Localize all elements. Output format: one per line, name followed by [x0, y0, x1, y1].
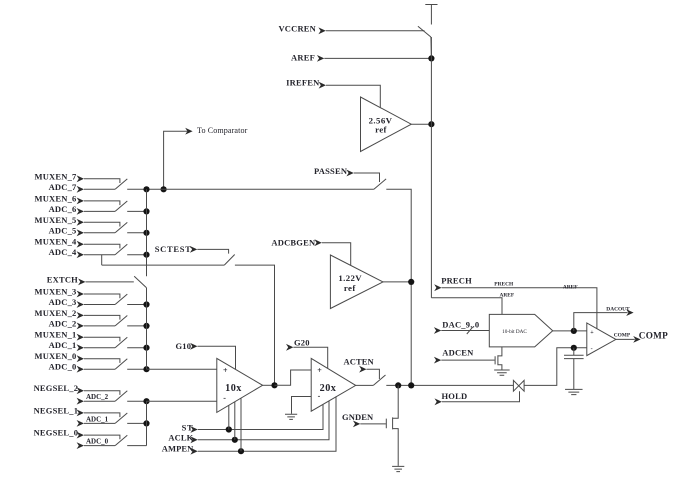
svg-text:AREF: AREF [291, 52, 315, 62]
svg-text:ADC_2: ADC_2 [86, 393, 109, 401]
svg-text:G20: G20 [294, 337, 310, 347]
input arrow negative ADC_1 [77, 420, 84, 427]
svg-text:+: + [590, 330, 594, 336]
svg-text:NEGSEL_1: NEGSEL_1 [34, 405, 79, 415]
wire SCTEST switch to 10x output node [235, 265, 275, 385]
wire MUXEN_5 control [84, 222, 120, 226]
svg-text:SCTEST: SCTEST [155, 244, 192, 254]
wire switch S7 to mux bus [127, 188, 146, 190]
svg-text:ADC_1: ADC_1 [86, 415, 109, 423]
input arrow MUXEN_4 [77, 241, 84, 248]
junction ST to 10x [226, 426, 232, 432]
wire ACLK riser to 10x [234, 402, 236, 440]
svg-text:AREF: AREF [500, 293, 515, 299]
svg-text:ADC_4: ADC_4 [49, 247, 77, 257]
wire ST to amplifiers [198, 404, 323, 429]
wire IREFEN to 2.56V ref enable [326, 85, 380, 108]
wire ACTEN control [367, 369, 380, 379]
svg-text:ACTEN: ACTEN [344, 356, 375, 366]
svg-text:NEGSEL_2: NEGSEL_2 [34, 383, 79, 393]
junction 2.56V output on reference bus [428, 121, 434, 127]
ground at ADCEN source [494, 370, 510, 375]
output arrow DACOUT [626, 309, 633, 316]
svg-text:MUXEN_1: MUXEN_1 [34, 330, 76, 340]
wire PRECH to comparator [442, 288, 597, 329]
wire VCCREN to switch [326, 30, 425, 32]
wire ADCBGEN to 1.22V ref enable [322, 243, 351, 266]
input arrow ADC_0 [77, 366, 84, 373]
wire SCTEST control [197, 249, 228, 253]
bus slash on DAC_9..0 [467, 327, 473, 334]
wire comparator output [616, 338, 635, 340]
wire EXTCH control [86, 281, 134, 283]
arrow To Comparator [185, 128, 192, 135]
switch S2 blade (open) [115, 316, 127, 326]
switch S0 blade (open) [115, 359, 127, 369]
wire sample line to hold gate [386, 384, 513, 386]
input arrow DAC_9..0 [434, 327, 441, 334]
svg-text:ADC_0: ADC_0 [49, 362, 77, 372]
ground at 20x inverting input [285, 414, 297, 419]
junction sample line / GNDEN pulldown [395, 382, 401, 388]
wire switch S5 to mux bus [127, 232, 146, 234]
junction ADC_3 on mux bus [143, 301, 149, 307]
wire switch S2 to mux bus [127, 325, 146, 327]
wire mux bus upper segment [146, 189, 148, 276]
svg-text:MUXEN_3: MUXEN_3 [34, 287, 76, 297]
wire 2.56V ref output to reference bus [411, 123, 431, 125]
wire MUXEN_4 control [84, 244, 120, 248]
input arrow ADC_5 [77, 229, 84, 236]
svg-text:ADC_3: ADC_3 [49, 297, 77, 307]
wire ADC_7 input [84, 188, 115, 190]
input arrow ACTEN [359, 366, 366, 373]
svg-text:10-bit DAC: 10-bit DAC [502, 329, 527, 335]
wire DAC output to comparator non-inverting input [553, 330, 587, 332]
wire ADC_3 input [84, 304, 115, 306]
input arrow ADC_3 [77, 301, 84, 308]
input arrow AREF [317, 55, 324, 62]
input arrow AMPEN [190, 448, 197, 455]
svg-text:ADC_0: ADC_0 [86, 438, 109, 446]
wire negative ADC_1 input [84, 422, 115, 424]
svg-text:VCCREN: VCCREN [278, 24, 316, 34]
input arrow GNDEN [353, 421, 360, 428]
wire AMPEN to amplifiers [198, 396, 336, 451]
input arrow MUXEN_0 [77, 355, 84, 362]
wire AREF [324, 57, 431, 59]
svg-text:ref: ref [344, 283, 356, 293]
svg-text:ADC_7: ADC_7 [49, 182, 77, 192]
svg-text:IREFEN: IREFEN [286, 78, 320, 88]
svg-text:ADC_5: ADC_5 [49, 225, 77, 235]
transistor M1 GNDEN pulldown NMOS [386, 385, 398, 466]
svg-text:PRECH: PRECH [494, 281, 514, 287]
wire switch S1 to mux bus [127, 347, 146, 349]
transistor M2 ADCEN enable NMOS [495, 347, 502, 370]
svg-text:PASSEN: PASSEN [314, 166, 348, 176]
wire negsel bus vertical [146, 401, 148, 445]
wire MUXEN_0 control [84, 359, 120, 363]
svg-text:+: + [317, 366, 322, 375]
switch SN0 blade (open) [115, 435, 127, 445]
wire MUXEN_7 control [84, 179, 120, 183]
svg-text:ADC_2: ADC_2 [49, 318, 77, 328]
wire hold gate to comparator inverting input [524, 348, 587, 386]
comparator U4 [587, 323, 616, 356]
wire ACLK to amplifiers [198, 401, 329, 440]
amplifier U2 1.22V bandgap reference [330, 255, 383, 309]
switch S3 blade (open) [115, 294, 127, 304]
wire ADC_0 input [84, 368, 115, 370]
wire MUXEN_1 control [84, 337, 120, 341]
junction DAC output / DACOUT tap [571, 328, 577, 334]
wire negative ADC_2 input [84, 400, 115, 402]
switch S5 blade (open) [115, 222, 127, 232]
svg-text:1.22V: 1.22V [338, 273, 362, 283]
wire HOLD control [442, 391, 520, 402]
wire ADCEN gate [441, 359, 494, 361]
svg-text:G10: G10 [176, 341, 192, 351]
switch S-ACTEN blade (open) [373, 375, 385, 385]
svg-text:MUXEN_2: MUXEN_2 [34, 308, 76, 318]
input arrow SCTEST [190, 246, 197, 253]
wire switch to AREF node [430, 37, 433, 58]
wire MUXEN_2 control [84, 315, 120, 319]
input arrow EXTCH [78, 279, 85, 286]
wire tap to comparator [164, 131, 188, 189]
capacitor C1 hold capacitor [564, 348, 584, 389]
svg-text:MUXEN_7: MUXEN_7 [34, 171, 77, 181]
svg-text:DAC_9..0: DAC_9..0 [442, 320, 479, 330]
svg-text:MUXEN_5: MUXEN_5 [34, 215, 76, 225]
input arrow ADC_4 [77, 251, 84, 258]
svg-text:AREF: AREF [563, 284, 578, 290]
input arrow ADC_7 [77, 186, 84, 193]
junction hold capacitor node [571, 345, 577, 351]
wire ADC_2 input [84, 325, 115, 327]
input arrow NEGSEL_2 [77, 387, 84, 394]
wire DACOUT [574, 313, 628, 331]
wire MUXEN_6 control [84, 201, 120, 205]
ground at hold capacitor [565, 389, 583, 394]
input arrow ADCEN [434, 357, 441, 364]
wire MUXEN_3 control [84, 294, 120, 298]
wire switch S0 to mux bus [127, 368, 146, 370]
wire SN1 to negsel bus [127, 422, 146, 424]
wire PASSEN control [354, 173, 380, 182]
junction ADC_1 on mux bus [143, 345, 149, 351]
junction AMPEN to 10x [238, 448, 244, 454]
input arrow ST [190, 426, 197, 433]
wire SN0 to negsel bus [127, 445, 146, 447]
input arrow ADC_2 [77, 323, 84, 330]
wire SN2 to negsel bus [127, 400, 146, 402]
junction ADC_4 on mux bus [143, 252, 149, 258]
svg-text:ADC_6: ADC_6 [49, 204, 77, 214]
junction NEGSEL bus / 10x inverting input [143, 398, 149, 404]
junction ADC_0 on mux bus [143, 366, 149, 372]
junction ADC_7 on mux bus [143, 186, 149, 192]
switch S-VCCREN blade (open) [418, 26, 431, 37]
svg-text:+: + [223, 366, 228, 375]
wire 20x output to ACTEN switch [356, 384, 374, 386]
input arrow MUXEN_6 [77, 198, 84, 205]
wire mux bus lower segment [146, 288, 148, 369]
input arrow NEGSEL_1 [77, 410, 84, 417]
input arrow PASSEN [346, 170, 353, 177]
input arrow negative ADC_2 [77, 398, 84, 405]
junction AREF node on reference bus [428, 55, 434, 61]
wire negative ADC_0 input [84, 445, 115, 447]
wire PASSEN switch to reference inject node [386, 189, 411, 385]
input arrow MUXEN_5 [77, 219, 84, 226]
input arrow PRECH [434, 284, 441, 291]
switch SN2 blade (open) [115, 391, 127, 401]
junction ACLK to 10x [232, 437, 238, 443]
svg-text:20x: 20x [320, 383, 337, 394]
input arrow negative ADC_0 [77, 442, 84, 449]
wire 1.22V output [383, 281, 411, 283]
switch S-SCTEST blade (open) [224, 255, 234, 266]
input arrow ADC_1 [77, 344, 84, 351]
wire switch S3 to mux bus [127, 304, 146, 306]
input arrow ADCBGEN [314, 239, 321, 246]
input arrow ADC_6 [77, 208, 84, 215]
svg-text:ADC_1: ADC_1 [49, 340, 77, 350]
svg-text:-: - [591, 347, 593, 353]
wire mux bus to 10x non-inverting input [147, 368, 217, 370]
block U3 10-bit DAC [489, 314, 552, 347]
wire 10x output [263, 384, 275, 386]
input arrow VCCREN [318, 27, 325, 34]
svg-text:ADCEN: ADCEN [442, 347, 474, 357]
junction ADC_2 on mux bus [143, 323, 149, 329]
svg-text:COMP: COMP [639, 330, 668, 340]
svg-text:EXTCH: EXTCH [47, 275, 78, 285]
input arrow ACLK [190, 436, 197, 443]
wire self-test line from ADC_4 tap [102, 264, 225, 266]
svg-text:ref: ref [375, 125, 387, 135]
wire 10x output to 20x non-inverting input [275, 370, 312, 385]
ground at GNDEN source [392, 466, 404, 471]
wire mux output to PASSEN switch [147, 188, 374, 190]
wire 20x inverting input to ground [292, 397, 312, 414]
junction To-Comparator tap on mux output line [161, 186, 167, 192]
wire NEGSEL_1 control [84, 413, 120, 417]
wire reference bus to DAC AREF input [431, 298, 502, 315]
op-amp A2 gain 20x [311, 358, 356, 411]
input arrow G20 [286, 344, 293, 351]
input arrow MUXEN_1 [77, 334, 84, 341]
input arrow MUXEN_3 [77, 291, 84, 298]
amplifier U1 2.56V reference [361, 97, 412, 152]
switch SN1 blade (open) [115, 413, 127, 423]
junction ADC_5 on mux bus [143, 230, 149, 236]
svg-text:ACLK: ACLK [168, 432, 193, 442]
wire AMPEN riser to 10x [240, 398, 242, 451]
power rail stub (supply T symbol) [425, 4, 437, 6]
input arrow NEGSEL_0 [77, 432, 84, 439]
switch S7 blade (open) [115, 179, 127, 189]
wire ADC_4 input [84, 254, 115, 256]
wire ST riser to 10x [228, 405, 230, 429]
wire G20 gain control to 20x [293, 347, 327, 368]
svg-text:10x: 10x [225, 383, 242, 394]
input arrow MUXEN_7 [77, 175, 84, 182]
switch S4 blade (open) [115, 244, 127, 254]
svg-text:ADCBGEN: ADCBGEN [271, 237, 316, 247]
switch S-EXTCH blade (open) [134, 276, 146, 288]
junction 10x output node [271, 382, 277, 388]
output arrow COMP [633, 336, 640, 343]
wire NEGSEL_0 control [84, 435, 120, 439]
wire ADC_5 input [84, 232, 115, 234]
junction ADC_6 on mux bus [143, 208, 149, 214]
wire reference bus AREF vertical [430, 37, 432, 298]
svg-text:MUXEN_0: MUXEN_0 [34, 351, 76, 361]
svg-text:COMP: COMP [614, 332, 631, 338]
svg-text:AMPEN: AMPEN [162, 443, 194, 453]
wire GNDEN gate [360, 423, 386, 425]
junction sample line / reference inject [408, 382, 414, 388]
svg-text:To Comparator: To Comparator [197, 126, 248, 135]
input arrow G10 [190, 343, 197, 350]
input arrow MUXEN_2 [77, 312, 84, 319]
svg-text:PRECH: PRECH [441, 276, 472, 286]
input arrow HOLD [435, 398, 442, 405]
op-amp A1 gain 10x [217, 358, 263, 412]
wire DAC data bus [441, 330, 489, 332]
wire negsel bus to 10x inverting input [147, 400, 217, 402]
input arrow IREFEN [319, 82, 326, 89]
node ADC_4 tap to SCTEST line [101, 255, 103, 265]
svg-text:NEGSEL_0: NEGSEL_0 [34, 428, 79, 438]
wire ADC_6 input [84, 210, 115, 212]
wire NEGSEL_2 control [84, 391, 120, 395]
switch S-PASSEN blade (open) [374, 179, 386, 189]
wire switch S6 to mux bus [127, 210, 146, 212]
svg-text:GNDEN: GNDEN [342, 412, 374, 422]
wire ADC_1 input [84, 347, 115, 349]
switch S6 blade (open) [115, 201, 127, 211]
junction 1.22V output with PASSEN line [408, 279, 414, 285]
transmission gate TG1 hold switch [513, 380, 524, 391]
wire switch S4 to mux bus [127, 254, 146, 256]
svg-text:MUXEN_4: MUXEN_4 [34, 237, 77, 247]
svg-text:DACOUT: DACOUT [606, 306, 630, 312]
svg-text:HOLD: HOLD [442, 391, 468, 401]
junction NEGSEL bus node [143, 420, 149, 426]
svg-text:MUXEN_6: MUXEN_6 [34, 193, 76, 203]
svg-text:-: - [223, 394, 226, 403]
switch S1 blade (open) [115, 337, 127, 347]
wire G10 gain control to 10x [198, 346, 236, 369]
